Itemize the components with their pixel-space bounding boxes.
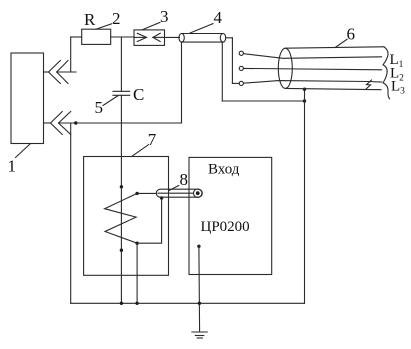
- wire from upper arrow to resistor branch: [57, 71, 76, 73]
- junction dot: [303, 99, 306, 102]
- bottom rail wire: [71, 302, 305, 304]
- svg-text:C: C: [133, 85, 144, 104]
- svg-text:7: 7: [148, 130, 157, 149]
- block 1 (sensor box): [11, 53, 44, 144]
- cable sheath bottom: [285, 88, 381, 89]
- junction dot: [120, 249, 123, 252]
- delay line 4 (cylinder): [182, 33, 223, 35]
- leader line for label 6: [336, 39, 348, 47]
- junction dot inside input unit: [197, 245, 200, 248]
- connector contact bottom: [239, 81, 243, 85]
- junction dot: [120, 185, 123, 188]
- wire right vertical to bottom rail: [304, 89, 306, 303]
- probe tip circle: [194, 189, 202, 197]
- wire resistor to arrester: [111, 36, 134, 38]
- svg-text:R: R: [84, 10, 96, 29]
- svg-text:Вход: Вход: [208, 162, 240, 178]
- break mark on L3: [366, 80, 372, 90]
- wire arrester to delay line 4: [165, 36, 180, 38]
- wire to resistor left: [71, 36, 82, 38]
- wire zigzag to probe: [137, 192, 156, 194]
- junction dot under probe: [160, 196, 163, 199]
- wire probe return: [137, 197, 162, 243]
- junction dot on cable sheath: [303, 88, 306, 91]
- wire delay line to connector: [226, 37, 233, 39]
- wire input unit to ground: [198, 246, 201, 331]
- svg-text:6: 6: [347, 24, 356, 43]
- wire delay line right end down and across: [221, 42, 223, 101]
- lower arrow into block 1: [44, 122, 51, 124]
- leader line for label 5: [103, 96, 118, 106]
- svg-text:5: 5: [95, 98, 104, 117]
- cable torn end: [383, 47, 390, 99]
- wire left vertical to bottom rail: [70, 123, 72, 303]
- leader line for label 8: [169, 186, 179, 191]
- leader line for label 1: [16, 144, 31, 158]
- cable sheath top: [285, 47, 384, 48]
- leader line for label 3: [142, 22, 160, 30]
- leader line for label 7: [132, 145, 149, 157]
- svg-text:3: 3: [160, 7, 169, 26]
- junction dot on rail: [198, 302, 201, 305]
- wire vertical up to resistor R: [70, 37, 72, 72]
- junction dot: [74, 121, 77, 124]
- wire lower horizontal run: [59, 122, 182, 124]
- connector contact top: [239, 51, 243, 55]
- heating element zigzag: [105, 193, 138, 243]
- wire zigzag bottom to rail: [136, 243, 138, 303]
- junction dot: [135, 192, 138, 195]
- spark gap (arrester) 3: [134, 30, 165, 46]
- svg-text:1: 1: [8, 157, 17, 176]
- input unit box (ЦР0200): [189, 157, 272, 274]
- cable 6 left end: [278, 48, 292, 88]
- resistor R1: [82, 29, 111, 44]
- leader line for label 2: [96, 24, 112, 29]
- wire from delay line left end down: [181, 42, 183, 123]
- conductor L2 wire: [243, 68, 381, 69]
- junction dots on bottom rail: [120, 302, 123, 305]
- svg-text:ЦР0200: ЦР0200: [201, 219, 250, 235]
- junction dot: [135, 242, 138, 245]
- leader line for label 4: [190, 24, 213, 33]
- capacitor C plates: [113, 90, 130, 92]
- ground: [192, 331, 207, 333]
- conductor L3 wire: [243, 81, 381, 84]
- svg-text:4: 4: [214, 8, 223, 27]
- svg-text:2: 2: [112, 9, 121, 28]
- capacitor C branch wire: [120, 37, 122, 91]
- upper arrow into block 1: [44, 71, 49, 73]
- conductor L1 wire: [243, 54, 381, 59]
- svg-text:8: 8: [180, 170, 189, 189]
- connector contact middle: [239, 66, 243, 70]
- wire capacitor down through box 7 to bottom rail: [120, 95, 122, 303]
- probe 8 body: [156, 189, 202, 197]
- heater box 7: [84, 157, 169, 276]
